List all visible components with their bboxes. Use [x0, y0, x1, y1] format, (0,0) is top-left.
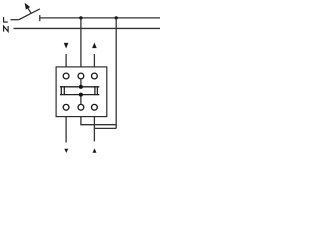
- switch S1 left stub wire: [11, 19, 19, 21]
- switch S1 blade: [19, 9, 40, 20]
- wire lower bend left to terminal 6 column: [94, 127, 116, 129]
- wire N rail to right edge: [14, 27, 161, 29]
- terminal 2 circle: [78, 73, 84, 79]
- node L label: [4, 17, 8, 22]
- switch S1 actuation arrowhead: [25, 3, 31, 10]
- fixed contact bar right outer: [96, 86, 98, 95]
- wire terminal 5 to lower bridge pivot: [80, 95, 82, 105]
- wire from L junction down to box top: [80, 18, 82, 67]
- switch S1 right contact tick: [39, 15, 41, 21]
- wire terminal 6 column below box: [93, 117, 95, 142]
- upper contact bridge rail: [60, 86, 99, 88]
- wire from terminal 5 column bend right: [81, 117, 116, 125]
- lower bridge pivot dot: [79, 93, 83, 97]
- wire right drop from L to lower bend: [115, 18, 117, 128]
- upper bridge pivot dot: [79, 85, 83, 89]
- fixed contact bar left inner: [63, 86, 65, 95]
- arrow down (top left, blind down): [64, 43, 69, 49]
- wire L rail to right edge: [40, 17, 160, 19]
- terminal 3 circle: [92, 73, 98, 79]
- terminal 6 circle: [92, 104, 98, 110]
- wire terminal 2 to upper bridge pivot: [80, 79, 82, 87]
- wire stub below box left (motor down): [65, 117, 67, 143]
- lower contact bridge rail: [60, 94, 99, 96]
- wire stub above box right: [93, 54, 95, 67]
- arrow down (bottom left, blind down): [64, 149, 68, 153]
- arrow up (bottom right, blind up): [93, 148, 97, 152]
- arrow up (top right, blind up): [92, 43, 97, 49]
- terminal 5 circle: [78, 104, 84, 110]
- terminal 4 circle: [63, 104, 69, 110]
- fixed contact bar left outer: [60, 86, 62, 95]
- switch S1 actuation arrow shaft: [28, 7, 31, 12]
- device box outline: [56, 67, 107, 117]
- terminal 1 circle: [63, 73, 69, 79]
- junction dot on L rail at right drop: [115, 16, 118, 19]
- fixed contact bar right inner: [94, 86, 96, 95]
- wire stub above box left: [65, 54, 67, 67]
- junction dot on L rail above terminal 2: [79, 16, 82, 19]
- node N label: [4, 26, 9, 32]
